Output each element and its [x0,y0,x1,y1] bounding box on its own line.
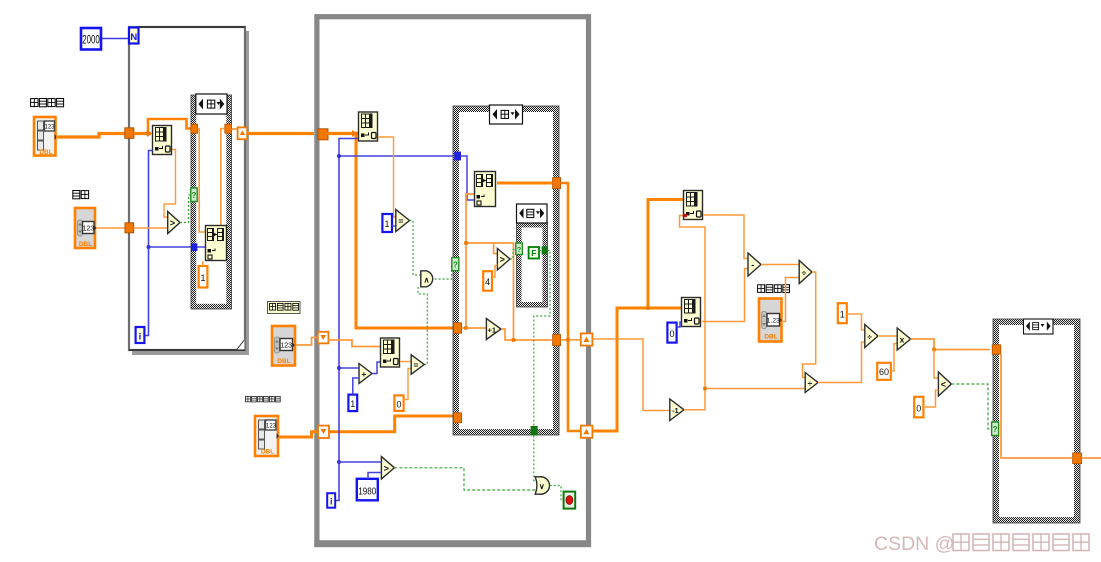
+ node [359,364,372,384]
green tunnel case2 bottom [531,426,538,435]
svg-text:÷: ÷ [802,268,807,278]
control 阈值 (numeric DBL) [75,208,97,248]
svg-text:i: i [139,332,142,343]
green tunnel case2b right [542,246,548,254]
svg-text:1.23: 1.23 [767,318,780,325]
comparison > node [168,212,180,234]
case1 selector ? tunnel [191,188,197,202]
branch to +1 [466,327,486,329]
indexing tunnel while right bottom [581,426,593,438]
constant 0 (orange) [394,395,403,411]
wire + out to W2 index [372,362,380,374]
wire tunnel2 to W2 [328,340,380,347]
indexing tunnel while right top [581,333,593,345]
svg-text:4: 4 [485,277,490,287]
wire while right bottom out (array) [592,308,683,431]
tunnel (for loop left, array in) [125,128,134,139]
wire OR to stop [550,486,564,500]
wire branch to < node [934,350,938,379]
decrement -1 node [670,399,684,421]
svg-text:123: 123 [82,226,94,233]
comparison > node 3 [497,249,510,271]
insert into array node (case1) [206,226,227,261]
svg-text:>: > [500,255,505,265]
wire >3 to inner case selector [510,250,516,260]
constant 1 (orange, right) [838,303,847,323]
CSDN watermark [874,533,1089,555]
wire -1 out up to N3 index [680,216,706,410]
wire +1 out [501,329,553,340]
case3 selector ? tunnel [992,422,999,436]
case 1 selector label 真 [196,94,227,114]
equals node 1 [396,210,410,232]
tunnel case1 left (array) [191,124,198,133]
index array node N4 (lower) [682,298,701,327]
index array node W2 [381,338,400,367]
wire riser branch at 243 [466,243,514,340]
blue iteration wire (i net) [145,151,153,336]
svg-text:x: x [900,335,905,345]
orange tunnel case2 left lower [454,413,462,423]
svg-text:?: ? [993,425,998,434]
svg-text:-: - [751,260,754,270]
index array node N3 (upper) [684,191,703,220]
wire N4 out to subtract [702,269,748,322]
wire case2 out top to while right (array down) [561,183,581,431]
case structure 1 (in for loop) [191,95,232,309]
wire array control to for loop [56,134,125,138]
wire 周期时刻数组 to while tunnel [279,432,318,437]
wire bottom tunnel to OR [534,435,535,480]
svg-text:1: 1 [350,399,355,409]
svg-text:CSDN @: CSDN @ [874,533,954,555]
svg-text:0: 0 [669,329,674,339]
svg-text:60: 60 [879,367,889,377]
wire for loop to while loop [247,132,314,135]
svg-text:1: 1 [384,219,389,229]
svg-text:N: N [130,32,137,43]
wire AND out to case2 selector [435,264,453,279]
svg-text:DBL: DBL [79,241,92,248]
wire W2 out to =2 [400,361,411,363]
case3 internal wire [1001,354,1073,458]
wire 2000 to N [102,38,128,40]
wire case1 out to for loop tunnel [232,128,238,130]
case2 blue wire [461,156,474,200]
svg-text:1: 1 [200,273,205,283]
svg-text:+1: +1 [488,326,497,335]
svg-text:?: ? [517,245,522,254]
blue tunnel case1 [191,243,197,251]
constant 60 [877,363,891,380]
constant 0 (orange, right) [914,397,923,418]
wire index out to comparison [164,150,176,218]
constant 0 (blue) [667,323,676,343]
wire i to >2 [339,461,381,463]
comparison < node [938,372,951,396]
wire threshold to > node [134,227,168,229]
constant 4 [483,271,492,291]
constant 2000 [81,28,101,50]
divide node C [865,325,878,348]
label 转速数组 [31,99,64,107]
orange tunnel case3 right [1073,453,1082,464]
wire while right top out (scalar) [592,339,669,411]
orange tunnel case2 right top [553,178,561,189]
case structure 3 [993,319,1080,523]
for loop fold corner [237,340,245,350]
wire divide C to multiply [878,335,897,337]
indexing tunnel for loop right [238,127,248,139]
svg-text:?: ? [453,260,458,269]
case structure 2 (in while loop) [453,106,559,435]
arrowhead into index node [147,130,152,137]
index array node W1 [359,112,378,141]
insert into array node C2 [475,172,496,207]
svg-text:1980: 1980 [358,486,376,498]
svg-text:∨: ∨ [539,482,545,491]
divide node A [799,261,812,284]
svg-text:>: > [384,464,389,474]
svg-text:=: = [398,216,403,226]
case 3 selector label 假 [1024,319,1054,334]
subtract node [748,253,761,276]
svg-text:DBL: DBL [39,149,52,156]
svg-text:2000: 2000 [82,35,100,47]
control 周期计数 (numeric DBL) [272,326,295,366]
tunnel case1 right (array) [225,124,232,133]
while loop [317,17,589,545]
svg-text:123: 123 [280,343,292,350]
for loop N [129,27,245,350]
divide node B [805,373,818,393]
orange tunnel case2 right mid [553,335,561,346]
wire array in for loop [134,132,151,135]
case2 selector ? tunnel [452,258,459,271]
wire W1 out to = [378,137,396,217]
wire divide A out to divide B [803,272,816,378]
comparison > node 2 [381,457,394,480]
AND gate [421,271,433,287]
svg-text:DBL: DBL [277,358,290,365]
wire =2 to AND bottom [418,287,427,365]
constant 1 (case1) [199,261,208,288]
case2 orange array riser [462,194,474,328]
control 周期时刻数组 (array) [255,416,279,456]
equals node 2 [411,355,424,374]
index array node (for loop) [153,126,172,155]
wire branch to divide B [705,388,805,390]
case1 internal wires [198,129,205,233]
svg-text:-1: -1 [672,406,679,415]
svg-text:123: 123 [44,125,55,131]
svg-text:i: i [330,497,333,507]
svg-text:0: 0 [916,404,921,414]
svg-text:+: + [361,369,366,379]
i terminal (while loop) [327,493,335,508]
svg-text:DBL: DBL [261,449,274,456]
control 转速数组 (array of DBL) [34,117,57,156]
wire F to tunnel [539,249,542,251]
tunnel while left top (array) [318,129,328,140]
svg-text:÷: ÷ [808,378,813,388]
indexing tunnel while left bottom [318,426,329,438]
tunnel (for loop left, scalar in) [125,223,134,233]
wire multiply out to case3 [911,339,990,350]
indexing tunnel while left mid [318,332,329,344]
constant 1980 [357,479,378,501]
wire F out down to bottom tunnel [534,250,550,426]
wire case2 mid to while right [561,339,581,341]
svg-text:=: = [414,360,419,370]
svg-text:<: < [941,380,946,390]
svg-text:÷: ÷ [867,332,872,342]
wire = to AND (green dotted) [410,221,421,276]
label box 周期计数 [268,302,301,314]
label 采样频率 [758,285,790,293]
wire > to case selector (green dotted) [180,195,191,223]
N terminal [129,28,139,44]
svg-text:123: 123 [266,424,277,430]
blue tunnel case2 [454,152,461,161]
wire threshold to for loop [96,227,125,229]
i terminal (for loop) [136,327,145,343]
wire 采样频率 to divide A [782,278,799,322]
wire tunnel3 to case2 lower tunnel [328,416,454,432]
for loop shadow [132,31,249,355]
orange tunnel case2 left [454,323,462,333]
wire case3 out to edge [1082,457,1101,459]
F boolean constant [529,247,539,259]
svg-text:F: F [531,248,536,258]
control 采样频率 (numeric DBL) [759,299,782,342]
svg-text:>: > [170,218,175,228]
wire divide B out to divide C [818,342,865,383]
svg-text:0: 0 [396,400,401,410]
wire array into W1 node [327,132,356,135]
multiply node [897,328,910,350]
case 2b selector label 假 [517,204,548,223]
constant 1 (blue) [382,214,392,232]
wire N3 out to subtract [703,215,748,259]
case structure 2b (inner, 假) [517,223,548,308]
svg-text:DBL: DBL [764,334,777,341]
orange tunnel case3 left [992,345,1001,354]
label 阈值 [73,191,89,199]
case 2 selector label 真 [490,105,523,124]
blue i net (while) [335,156,454,501]
svg-text:∧: ∧ [424,275,430,284]
wire 周期计数 to while tunnel [296,338,318,346]
svg-text:?: ? [192,191,197,200]
+1 node [486,319,501,340]
wire subtract to divide A [761,264,799,266]
stop terminal [564,492,576,509]
label 周期时刻数组 [245,396,280,402]
junction [146,132,150,136]
wire >2 to OR (green dashed) [394,468,535,490]
wire C2 out (array) [497,182,553,185]
case2b selector ? tunnel [516,243,523,255]
svg-text:1: 1 [840,310,845,320]
wire < to case3 selector (green dashed) [951,384,991,429]
OR gate [535,477,549,494]
wires + inputs [339,367,359,369]
